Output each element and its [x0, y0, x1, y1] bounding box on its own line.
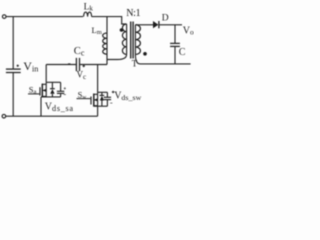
- svg-text:Vds_sw: Vds_sw: [114, 90, 141, 102]
- svg-text:N:1: N:1: [126, 8, 140, 19]
- svg-text:Lk: Lk: [84, 2, 94, 12]
- svg-text:Vo: Vo: [183, 25, 194, 36]
- svg-text:T: T: [132, 59, 138, 69]
- svg-text:C: C: [179, 47, 186, 58]
- svg-text:Cc: Cc: [74, 46, 85, 58]
- svg-text:D: D: [162, 14, 169, 24]
- svg-text:Vds_sa: Vds_sa: [45, 101, 74, 113]
